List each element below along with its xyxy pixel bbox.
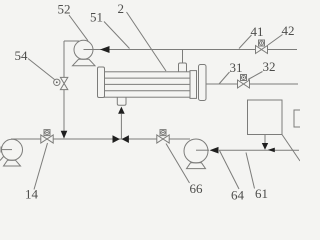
svg-text:61: 61 <box>255 186 268 200</box>
leader line for label 14 <box>34 143 48 190</box>
valve 42 body (bowtie) on top line <box>256 46 262 54</box>
wire: diagonal from tank corner to lower right <box>282 135 300 162</box>
wire: short diagonal at lower-left image edge <box>0 156 4 161</box>
arrow: solid up arrowhead into bottom nozzle <box>118 107 125 114</box>
svg-text:14: 14 <box>25 187 39 201</box>
leader line for label 54 <box>28 59 55 80</box>
leader line for label 31 <box>219 72 230 84</box>
heat exchanger 2: tube lines <box>105 77 191 79</box>
wire: pipe 51 top main line from pump 52 to right edge <box>84 49 298 51</box>
pump 52 (top-left) circle <box>74 40 93 59</box>
svg-text:31: 31 <box>230 60 243 75</box>
leader line for label 52 <box>69 15 88 41</box>
valve: solid black bowtie at bottom riser junction <box>113 135 120 143</box>
wire: pump 14 suction end tick <box>0 147 2 153</box>
wire: vertical line from pump inlet down through valve 54 <box>63 41 65 132</box>
leader line for label 42 <box>268 35 283 46</box>
svg-text:52: 52 <box>58 2 71 17</box>
wire: pump 52 inlet horizontal <box>64 40 79 42</box>
svg-text:32: 32 <box>263 59 276 74</box>
wire: tank drain line <box>264 135 266 144</box>
valve 14 actuator square with circle <box>44 130 50 136</box>
pump 14 center line <box>1 149 12 151</box>
svg-text:42: 42 <box>282 23 295 38</box>
valve 42 actuator square with circle <box>259 40 265 46</box>
heat exchanger 2: top nozzle <box>179 63 187 72</box>
wire: bottom main pipe line <box>11 138 190 140</box>
heat exchanger 2: right head <box>199 65 207 101</box>
pump 64 (bottom-right) circle <box>184 139 208 163</box>
arrow: solid down arrowhead at junction of vertical line with bottom line <box>61 131 68 139</box>
heat exchanger 2: right tube sheet <box>190 71 197 99</box>
valve 14 body (bowtie) <box>41 135 47 143</box>
leader line for label 2 <box>127 12 167 71</box>
wire: riser from bottom line up to exchanger bottom nozzle <box>120 114 122 139</box>
valve 66 actuator square with circle <box>160 130 166 136</box>
leader line for label 61 <box>246 153 255 189</box>
svg-text:51: 51 <box>90 10 103 25</box>
wire: riser from pipe 51 down to top nozzle <box>182 50 184 64</box>
arrow: solid left arrowhead on pipe right of tank junction <box>268 148 275 153</box>
heat exchanger 2: left head <box>98 67 105 98</box>
valve 66 body (bowtie) <box>157 135 163 143</box>
wire: pipe 31 from right head to right edge <box>206 83 298 85</box>
leader line for label 64 <box>220 151 240 190</box>
heat exchanger 2: shell <box>105 72 191 97</box>
heat exchanger 2: bottom nozzle <box>117 97 126 105</box>
leader line for label 32 <box>248 72 263 80</box>
leader line for label 51 <box>104 22 130 49</box>
valve 31/32 actuator square with circle <box>241 75 247 81</box>
svg-text:64: 64 <box>231 188 245 201</box>
svg-text:66: 66 <box>190 181 204 196</box>
box at right edge (clipped) <box>294 110 301 127</box>
pump 64 center discharge line <box>196 149 209 151</box>
valve 54 actuator circle with dot <box>54 79 60 85</box>
leader line for label 41 <box>239 35 252 49</box>
valve 31/32 body (bowtie) <box>238 80 244 88</box>
pump 64 base <box>187 163 206 169</box>
pump 14 base <box>4 160 21 166</box>
pump 14 (bottom-left) circle <box>2 139 23 160</box>
pump 52 base <box>73 59 96 65</box>
svg-text:54: 54 <box>15 48 29 63</box>
wire: bottom-right pipe to right edge <box>218 149 299 151</box>
svg-text:41: 41 <box>251 24 264 39</box>
tank (box above bottom-right pipe) <box>248 100 283 135</box>
arrow: solid left arrowhead on pump 64 discharge <box>210 147 219 154</box>
arrow: solid down arrowhead from tank to pipe <box>262 143 268 150</box>
arrow: solid left arrowhead on pipe 51 <box>100 46 110 53</box>
valve 54 (hourglass on vertical line) <box>60 77 67 83</box>
svg-text:2: 2 <box>118 1 125 16</box>
leader line for label 66 <box>166 144 190 184</box>
